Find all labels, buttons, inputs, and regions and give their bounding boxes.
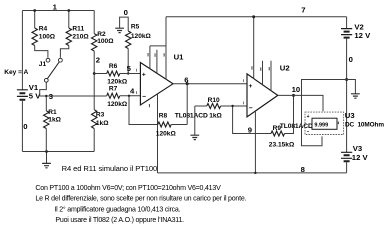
svg-text:U3: U3 xyxy=(345,111,355,120)
svg-text:1kΩ: 1kΩ xyxy=(96,120,109,127)
ground (right) xyxy=(347,80,356,94)
battery V3 xyxy=(341,152,352,158)
wire V2 minus down (node 0) xyxy=(346,39,348,153)
wire left rail V1 plus xyxy=(21,11,23,90)
svg-text:120kΩ: 120kΩ xyxy=(156,131,177,138)
svg-text:R3: R3 xyxy=(96,112,105,119)
resistor R1 xyxy=(45,96,47,111)
resistor R7 xyxy=(107,93,120,98)
svg-text:DC 10MOhm: DC 10MOhm xyxy=(345,122,384,129)
wire node 10 : U2 out to meter xyxy=(278,95,323,111)
svg-text:J1: J1 xyxy=(39,61,47,68)
resistor R8 xyxy=(129,96,158,125)
svg-text:R8: R8 xyxy=(159,112,168,119)
svg-text:12 V: 12 V xyxy=(354,31,371,40)
wire node6 down to R8 xyxy=(186,84,188,125)
svg-text:Key = A: Key = A xyxy=(4,69,28,76)
wire bottom rail xyxy=(22,151,94,153)
svg-text:Le R del differenziale, sono s: Le R del differenziale, sono scelte per … xyxy=(35,196,246,203)
resistor R11 xyxy=(68,11,70,29)
svg-text:R4: R4 xyxy=(39,25,48,32)
svg-text:Con PT100 a 100ohm V6=0V; con: Con PT100 a 100ohm V6=0V; con PT100=210o… xyxy=(35,185,221,192)
resistor R10 xyxy=(195,105,207,107)
svg-text:V1: V1 xyxy=(29,83,39,92)
svg-text:120kΩ: 120kΩ xyxy=(131,33,152,40)
svg-text:+: + xyxy=(142,71,146,78)
wire rail 8 (-12V) xyxy=(158,172,347,174)
wire rail 7 (+12V) xyxy=(166,16,347,18)
svg-text:12 V: 12 V xyxy=(352,153,369,162)
resistor R5 xyxy=(125,31,130,49)
svg-text:TL081ACD: TL081ACD xyxy=(175,113,208,120)
resistor R2 xyxy=(93,11,95,34)
svg-text:-: - xyxy=(307,130,309,136)
svg-text:0: 0 xyxy=(23,122,27,131)
U2 bottom pin (V-) xyxy=(254,111,256,173)
svg-text:9.999: 9.999 xyxy=(314,122,328,128)
op-amp U2 xyxy=(247,74,278,117)
svg-text:7: 7 xyxy=(301,5,305,14)
svg-text:120kΩ: 120kΩ xyxy=(107,79,128,86)
wire switch pole to node 3 xyxy=(40,82,107,96)
battery V2 xyxy=(346,17,348,29)
wire node 1 top rail xyxy=(22,10,94,12)
svg-text:R11: R11 xyxy=(72,25,84,32)
resistor R4 xyxy=(34,11,36,29)
U2 top pins xyxy=(254,17,271,91)
svg-text:1kΩ: 1kΩ xyxy=(209,112,222,119)
svg-text:U2: U2 xyxy=(280,63,290,72)
svg-text:0: 0 xyxy=(349,55,353,64)
ground (R10 left) xyxy=(194,106,196,135)
svg-text:4: 4 xyxy=(130,86,135,95)
svg-text:+: + xyxy=(249,83,253,90)
multimeter U3 xyxy=(305,112,344,134)
svg-text:U1: U1 xyxy=(174,53,185,62)
svg-text:6: 6 xyxy=(184,76,188,85)
resistor R6 xyxy=(94,73,107,75)
svg-text:5: 5 xyxy=(127,64,132,73)
svg-text:R9: R9 xyxy=(273,125,282,132)
svg-text:R2: R2 xyxy=(97,31,106,38)
resistor R3 xyxy=(91,110,96,129)
wire node 2 vertical xyxy=(93,51,95,110)
svg-text:−: − xyxy=(249,105,253,112)
svg-text:0: 0 xyxy=(124,8,128,17)
svg-text:3: 3 xyxy=(49,92,53,101)
ground (bridge bottom) xyxy=(46,152,48,164)
svg-text:R7: R7 xyxy=(109,86,118,93)
svg-text:10: 10 xyxy=(292,85,301,94)
svg-text:2: 2 xyxy=(96,56,100,65)
svg-text:1kΩ: 1kΩ xyxy=(48,116,61,123)
svg-text:Puoi usare il Tl082 (2 A.O.) o: Puoi usare il Tl082 (2 A.O.) oppure l’IN… xyxy=(55,217,184,224)
svg-text:100Ω: 100Ω xyxy=(97,38,114,45)
U2 input pin ticks xyxy=(243,79,244,82)
svg-text:120kΩ: 120kΩ xyxy=(107,101,128,108)
svg-text:R6: R6 xyxy=(109,63,118,70)
svg-text:9: 9 xyxy=(248,126,252,135)
svg-text:Il 2° amplificatore guadagna 1: Il 2° amplificatore guadagna 10/0,413 ci… xyxy=(54,205,180,213)
svg-text:100Ω: 100Ω xyxy=(39,34,56,41)
svg-text:+: + xyxy=(307,114,310,120)
svg-text:1: 1 xyxy=(53,2,58,11)
svg-text:R5: R5 xyxy=(131,24,140,31)
op-amp U1 xyxy=(140,63,173,106)
wire V1 minus lead xyxy=(21,101,23,152)
U1 top pins xyxy=(150,46,166,80)
svg-text:23.15kΩ: 23.15kΩ xyxy=(269,142,295,149)
svg-text:R4 ed R11 simulano il PT100: R4 ed R11 simulano il PT100 xyxy=(62,164,158,173)
U1 bottom pin (V-) xyxy=(157,94,159,173)
svg-text:−: − xyxy=(142,94,146,101)
svg-text:210Ω: 210Ω xyxy=(72,34,89,41)
resistor R9 feedback xyxy=(233,106,271,134)
svg-text:8: 8 xyxy=(301,165,306,174)
wire meter minus loop xyxy=(302,80,347,146)
U1 input pin ticks xyxy=(136,69,137,72)
svg-text:R1: R1 xyxy=(48,109,57,116)
svg-text:R10: R10 xyxy=(208,97,220,104)
wire node 6 : U1 out to U2 plus xyxy=(173,83,247,85)
battery V1 xyxy=(17,90,28,97)
